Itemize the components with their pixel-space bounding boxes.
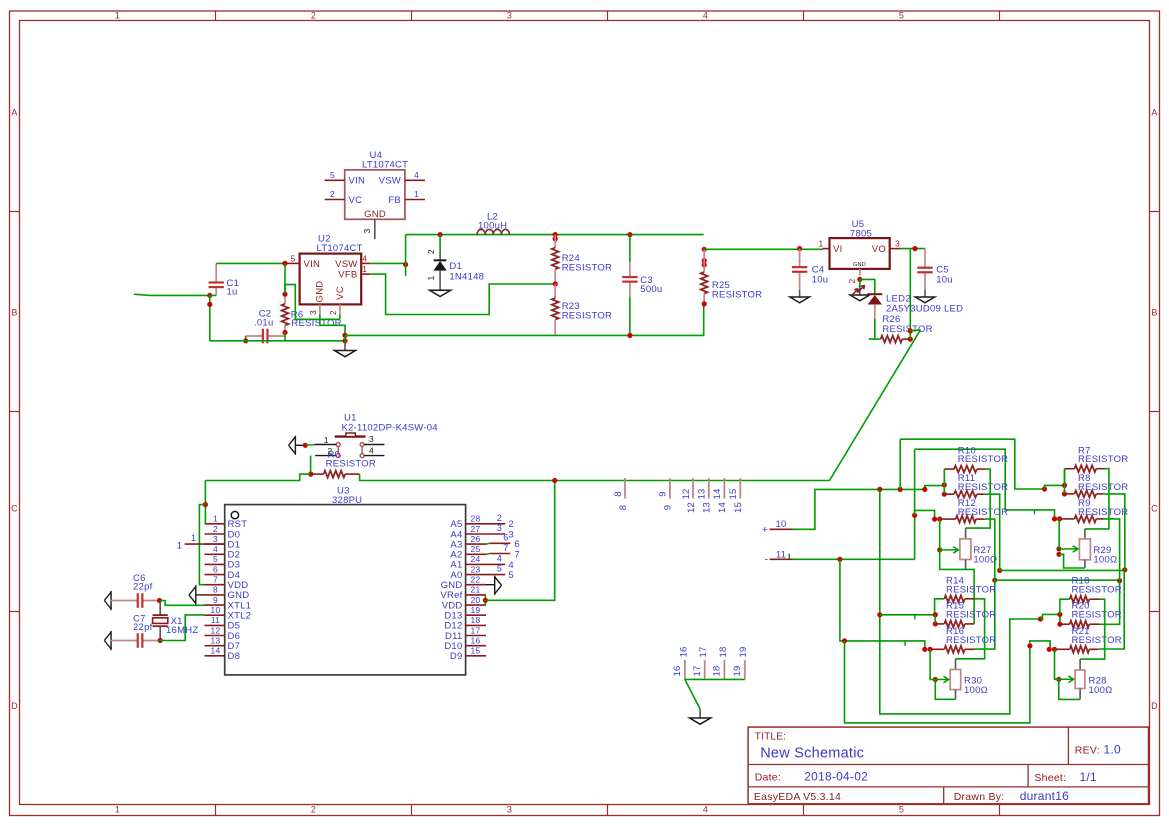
svg-text:EasyEDA V5.3.14: EasyEDA V5.3.14 — [754, 791, 841, 803]
wire D1 top — [439, 235, 441, 251]
svg-text:1N4148: 1N4148 — [449, 272, 484, 283]
svg-text:2: 2 — [328, 310, 338, 315]
wire R15 right col up — [966, 569, 975, 624]
capacitor C4 — [799, 249, 801, 268]
svg-text:8: 8 — [213, 585, 218, 595]
svg-text:durant16: durant16 — [1020, 789, 1069, 803]
capacitor C1 — [215, 263, 217, 282]
U3 right pin numbers — [471, 514, 481, 656]
svg-text:24: 24 — [471, 554, 481, 564]
svg-text:TITLE:: TITLE: — [755, 732, 787, 743]
wire C1 top to VIN node — [216, 262, 285, 264]
svg-text:K2-1102DP-K4SW-04: K2-1102DP-K4SW-04 — [342, 423, 438, 434]
junction R25 top b — [702, 262, 707, 267]
wire into C1 from left — [134, 294, 210, 295]
svg-text:12: 12 — [686, 502, 697, 513]
svg-text:28: 28 — [471, 514, 481, 524]
potentiometer R29 — [1079, 539, 1090, 560]
junction R20 feed corner — [1038, 616, 1043, 621]
ground symbol bottom — [690, 718, 711, 724]
wire rail A top — [900, 439, 1044, 489]
svg-text:A: A — [1151, 108, 1157, 118]
svg-text:13: 13 — [211, 635, 221, 645]
junction railA right — [1042, 486, 1047, 491]
wire R18 left col — [1060, 599, 1070, 614]
ground stem bottom — [699, 709, 701, 718]
U3 right pin names — [440, 519, 462, 662]
ground stem C5 — [924, 290, 926, 297]
wire bottom stub diagonal — [685, 679, 700, 709]
svg-text:2: 2 — [847, 278, 857, 283]
U5 pin 1 stub — [823, 248, 830, 250]
wire R7 right col to pot top — [1085, 469, 1109, 529]
wire R15 feed rail — [880, 614, 936, 616]
svg-text:1: 1 — [191, 533, 196, 543]
svg-text:GND: GND — [853, 262, 866, 268]
wire U5 VO to C5 — [901, 248, 926, 250]
LED2 diode — [867, 294, 882, 319]
junction R21 left b — [1052, 647, 1057, 652]
ground symbol below C4 — [790, 297, 809, 303]
junction U1 pin1 flag — [303, 443, 308, 448]
svg-text:REV:: REV: — [1075, 745, 1100, 757]
svg-text:RESISTOR: RESISTOR — [958, 482, 1008, 493]
U3 right net labels — [497, 513, 520, 581]
svg-text:RESISTOR: RESISTOR — [958, 507, 1008, 518]
resistor R24 — [552, 235, 559, 284]
junction R6 bottom — [282, 330, 287, 335]
wire U2 VSW to rail riser — [370, 262, 405, 264]
junction U5 VO node — [912, 246, 917, 251]
svg-text:2: 2 — [497, 513, 502, 523]
svg-text:1: 1 — [324, 435, 329, 445]
junction C6-X1 — [157, 598, 162, 603]
net flag at C6 left — [104, 591, 111, 610]
junction R10 feed jog — [922, 487, 927, 492]
svg-text:LT1074CT: LT1074CT — [362, 160, 408, 171]
svg-text:RESISTOR: RESISTOR — [1078, 454, 1128, 465]
svg-text:10u: 10u — [936, 275, 953, 286]
wire R12 feed step — [915, 510, 935, 519]
wire pin22 to flag — [486, 584, 495, 586]
svg-text:9: 9 — [663, 505, 674, 511]
svg-text:9: 9 — [213, 595, 218, 605]
svg-text:VIN: VIN — [304, 259, 321, 270]
svg-text:11: 11 — [211, 615, 220, 625]
junction R12 branch — [912, 513, 917, 518]
svg-text:2018-04-02: 2018-04-02 — [804, 770, 868, 784]
svg-text:Sheet:: Sheet: — [1034, 772, 1066, 784]
svg-text:7805: 7805 — [850, 229, 872, 240]
svg-text:26: 26 — [471, 534, 481, 544]
junction bus riser — [552, 478, 557, 483]
junction R15 left — [933, 621, 938, 626]
junction R20 feed a — [1057, 612, 1062, 617]
net stub 14 on bus — [723, 478, 725, 499]
pot R30 bottom lead — [955, 690, 957, 700]
svg-text:RESISTOR: RESISTOR — [1078, 482, 1128, 493]
junction C1 bottom — [207, 293, 212, 298]
junction -11 branch — [837, 557, 842, 562]
svg-text:3: 3 — [213, 534, 218, 544]
op U2 box — [300, 254, 362, 305]
svg-text:16: 16 — [678, 646, 689, 657]
resistor R21 — [1055, 646, 1099, 653]
wire R12 right col — [985, 519, 995, 580]
svg-text:3: 3 — [308, 310, 318, 315]
wire +10 col down — [880, 489, 1041, 714]
capacitor C2 — [246, 335, 263, 337]
wire rail 570 — [1000, 569, 1125, 571]
wire bottom rail — [345, 304, 704, 336]
wire C3 bottom — [629, 297, 631, 335]
svg-text:GND: GND — [364, 209, 386, 220]
svg-text:3: 3 — [895, 238, 900, 248]
pot R29 top lead — [1084, 529, 1086, 539]
svg-text:1: 1 — [414, 189, 419, 199]
svg-text:B: B — [11, 308, 17, 318]
junction VDD branch — [203, 502, 208, 507]
wire flag to pin8 — [196, 594, 205, 596]
wire R28 bottom loop — [1059, 679, 1080, 699]
svg-text:2: 2 — [426, 249, 436, 254]
svg-text:16: 16 — [471, 635, 481, 645]
U2 pin 4 stub — [361, 262, 370, 264]
net stub 18 bottom — [723, 660, 725, 679]
svg-text:2: 2 — [213, 524, 218, 534]
svg-text:VO: VO — [872, 244, 886, 255]
U4 pin 2 stub — [325, 199, 345, 201]
svg-text:15: 15 — [728, 488, 739, 499]
wire U5 pin2 to LED — [860, 279, 875, 294]
U1 pin 4 line — [364, 455, 384, 457]
R29 wiper arrow — [1059, 546, 1078, 553]
wire R8 right col — [1104, 494, 1125, 570]
R30 wiper arrow — [935, 676, 948, 683]
svg-text:100Ω: 100Ω — [1093, 555, 1117, 566]
junction C3 bottom — [627, 333, 632, 338]
regulator U5 box — [830, 238, 890, 269]
resistor R16 — [930, 646, 974, 653]
svg-text:13: 13 — [697, 488, 708, 499]
svg-text:500u: 500u — [640, 284, 662, 295]
wire ground node stem — [344, 335, 346, 342]
svg-text:VI: VI — [833, 244, 842, 255]
svg-text:C: C — [1151, 504, 1158, 514]
svg-text:4: 4 — [497, 553, 502, 563]
wire flag to U1 pin1 — [295, 444, 305, 446]
svg-text:-: - — [765, 554, 769, 566]
net stub 19 bottom — [744, 660, 746, 679]
svg-text:4: 4 — [703, 805, 708, 815]
U2 pin 3 stub — [319, 304, 321, 314]
net 10 wire — [770, 528, 793, 530]
U4 pin 1 stub — [405, 199, 425, 201]
wire VRef-VDD tie — [484, 595, 486, 605]
resistor R11 — [944, 491, 985, 498]
svg-text:4: 4 — [213, 544, 218, 554]
U3 pin1 indicator circle — [231, 511, 238, 518]
net tick R16 feed — [904, 641, 906, 646]
capacitor C5 — [924, 249, 926, 268]
wire junction to pin1 — [305, 444, 314, 446]
wire C2 left down — [245, 336, 247, 341]
svg-text:RESISTOR: RESISTOR — [946, 609, 996, 620]
ground symbol below C5 — [915, 297, 934, 303]
title block — [748, 727, 1148, 804]
wire R10R11 left col — [943, 469, 945, 494]
junction R10R11 col a — [942, 482, 947, 487]
wire net11 rail — [793, 558, 915, 560]
wire R15 left col — [934, 615, 936, 624]
junction C7-X1 — [158, 638, 163, 643]
resistor R9 — [1060, 516, 1104, 523]
wire VIN node down to R6 — [284, 263, 286, 294]
svg-text:1: 1 — [177, 541, 183, 552]
svg-text:VC: VC — [349, 195, 363, 206]
junction R15 feed right — [933, 612, 938, 617]
wire R14 right col to pot top — [956, 599, 985, 659]
wire LED2 to R26 — [875, 338, 881, 340]
wire R20 feed step — [1041, 614, 1060, 624]
wire bus down to U3 — [204, 481, 206, 524]
junction R9 left b — [1057, 516, 1062, 521]
R26 right lead — [902, 338, 910, 340]
svg-text:2: 2 — [330, 189, 335, 199]
inductor L2 — [477, 229, 509, 234]
capacitor C6 — [111, 600, 138, 602]
wire R9 to wiper col — [1058, 519, 1060, 549]
wire R10 right col to pot top — [966, 469, 991, 528]
U3 left pin numbers — [211, 514, 221, 656]
junction R8 left — [1062, 491, 1067, 496]
svg-text:12: 12 — [211, 625, 221, 635]
svg-text:RESISTOR: RESISTOR — [712, 290, 762, 301]
svg-text:VC: VC — [335, 286, 346, 300]
svg-text:5: 5 — [899, 805, 904, 815]
pot R28 top lead — [1079, 659, 1081, 670]
junction R28 wiper — [1056, 677, 1061, 682]
resistor R15 — [935, 621, 974, 628]
svg-text:21: 21 — [471, 585, 481, 595]
svg-text:3: 3 — [369, 434, 374, 444]
svg-text:5: 5 — [899, 11, 904, 21]
U4 pin 3 stub — [374, 219, 376, 239]
svg-text:17: 17 — [698, 646, 709, 657]
junction below C1 — [207, 302, 212, 307]
junction C2 left on rail — [243, 338, 248, 343]
U3 left pin stubs — [205, 524, 225, 656]
wire R27 bottom loop — [940, 550, 966, 570]
net stub 9 on bus — [669, 478, 671, 499]
wire C7 to XTL2 — [158, 615, 204, 641]
wire C1 ground rail — [210, 340, 345, 342]
svg-text:14: 14 — [717, 502, 728, 513]
wire R9 right col — [1104, 519, 1120, 581]
pot R30 top lead — [955, 659, 957, 670]
svg-text:17: 17 — [692, 665, 703, 676]
junction R12 left a — [932, 517, 937, 522]
svg-text:23: 23 — [471, 564, 481, 574]
U1 pin 1 line — [314, 444, 336, 446]
svg-text:RESISTOR: RESISTOR — [946, 584, 996, 595]
U3 left pin names — [228, 519, 252, 662]
junction R24 top b — [553, 236, 558, 241]
junction R24 top a — [553, 232, 558, 237]
junction R27 wiper — [937, 547, 942, 552]
mcu U3 box — [225, 505, 466, 675]
resistor R12 — [940, 516, 985, 523]
wire branch to VDD pin7 — [199, 505, 205, 585]
U2 pin 5 stub — [287, 262, 300, 264]
svg-text:VIN: VIN — [349, 176, 366, 187]
wire top rail — [406, 234, 704, 236]
svg-text:16MHZ: 16MHZ — [166, 625, 198, 636]
ground stem U5 pin2 — [859, 288, 861, 295]
wire +10 rail to network — [880, 486, 945, 490]
svg-text:3: 3 — [508, 529, 514, 540]
ground symbol below U5 pin2 — [850, 295, 869, 301]
resistor R0 — [311, 471, 360, 478]
pot R29 bottom lead — [1084, 560, 1086, 568]
net tick on R9 feed — [1034, 510, 1036, 515]
U3 right net wires — [486, 524, 510, 575]
svg-text:1: 1 — [213, 514, 218, 524]
U3 right pin stubs — [466, 524, 486, 656]
junction main ground node lower — [342, 338, 347, 343]
svg-text:GND: GND — [314, 281, 325, 303]
svg-text:18: 18 — [718, 646, 729, 657]
resistor R6 — [282, 294, 289, 332]
junction R7R8 feed — [1062, 483, 1067, 488]
wire R7R8 left col — [1064, 469, 1066, 494]
U1 pin 3 line — [364, 444, 384, 446]
junction C4 top — [797, 246, 802, 251]
svg-text:6: 6 — [503, 533, 508, 543]
wire rail 580 — [995, 579, 1120, 581]
svg-text:25: 25 — [471, 544, 481, 554]
svg-text:RESISTOR: RESISTOR — [946, 635, 996, 646]
wire R7 left col — [1064, 469, 1066, 486]
resistor R10 — [944, 466, 985, 473]
junction R26 right — [908, 337, 913, 342]
wire R12 to wiper col — [939, 519, 941, 550]
svg-text:1: 1 — [426, 275, 436, 280]
svg-text:100Ω: 100Ω — [1089, 685, 1113, 696]
svg-text:RESISTOR: RESISTOR — [958, 454, 1008, 465]
svg-text:328PU: 328PU — [332, 495, 362, 506]
junction R21 left a — [1047, 647, 1052, 652]
svg-text:7: 7 — [514, 549, 520, 560]
U1 pin 2 line — [315, 455, 336, 457]
svg-text:18: 18 — [471, 615, 481, 625]
svg-text:3: 3 — [507, 11, 512, 21]
junction U5 pin2 node — [857, 277, 862, 282]
svg-text:RESISTOR: RESISTOR — [1072, 609, 1122, 620]
junction VSW node — [403, 262, 408, 267]
svg-text:12: 12 — [681, 488, 692, 499]
potentiometer R28 — [1075, 670, 1085, 689]
svg-text:RESISTOR: RESISTOR — [562, 263, 612, 274]
net flag at U3 pin22 GND — [495, 576, 502, 595]
wire C1 bottom jog — [210, 295, 216, 340]
svg-text:4: 4 — [362, 253, 367, 263]
svg-text:RESISTOR: RESISTOR — [562, 311, 612, 322]
svg-text:New Schematic: New Schematic — [760, 746, 864, 762]
wire col1124 to R21 right — [1098, 570, 1124, 649]
U2 pin 1 stub — [361, 273, 370, 275]
svg-text:2: 2 — [311, 805, 316, 815]
svg-text:1u: 1u — [227, 287, 238, 298]
resistor R25 — [701, 249, 708, 304]
wire R16 to wiper col — [930, 649, 935, 679]
svg-text:1: 1 — [362, 264, 367, 274]
svg-text:9: 9 — [658, 491, 669, 497]
svg-text:100uH: 100uH — [478, 221, 507, 232]
svg-text:Drawn By:: Drawn By: — [954, 791, 1005, 803]
wire bottom stub bus — [685, 678, 745, 680]
svg-text:14: 14 — [211, 646, 221, 656]
svg-text:7: 7 — [503, 543, 508, 553]
wire R21 to wiper col — [1055, 649, 1059, 679]
U5 pin 2 stub — [859, 269, 861, 276]
svg-text:3: 3 — [362, 228, 372, 233]
wire -11 col down — [840, 559, 925, 649]
svg-text:RESISTOR: RESISTOR — [1072, 635, 1122, 646]
svg-text:RESISTOR: RESISTOR — [882, 324, 932, 335]
net flag at U1 pin1 — [289, 436, 296, 455]
resistor R18 — [1070, 596, 1100, 603]
svg-text:100Ω: 100Ω — [973, 555, 997, 566]
wire diagonal to MCU bus — [830, 330, 921, 481]
svg-text:.01u: .01u — [254, 318, 274, 329]
svg-text:D1: D1 — [449, 261, 462, 272]
resistor R7 — [1065, 465, 1105, 472]
wire R25 to U5 VI — [704, 248, 823, 250]
wire U1 pin2 down — [310, 456, 312, 475]
capacitor C3 — [629, 262, 631, 277]
svg-text:10: 10 — [211, 605, 221, 615]
potentiometer R27 — [960, 539, 971, 560]
wire VO down to R26 node — [909, 249, 911, 340]
wire R30 bottom loop — [935, 680, 955, 700]
svg-text:5: 5 — [497, 564, 502, 574]
wire C3 top — [629, 235, 631, 263]
svg-text:19: 19 — [738, 646, 749, 657]
svg-text:D: D — [11, 701, 18, 711]
wire R29 bottom loop — [1059, 554, 1085, 568]
svg-text:C: C — [11, 504, 18, 514]
wire net10 to rail — [793, 489, 880, 529]
wire R18 right col to pot top — [1080, 599, 1105, 659]
svg-text:3: 3 — [507, 805, 512, 815]
wire LED2 anode down — [869, 319, 875, 339]
junction main ground node upper — [342, 333, 347, 338]
svg-text:VFB: VFB — [338, 269, 357, 280]
wire U2 pin3 riser — [320, 314, 345, 335]
svg-text:3: 3 — [497, 523, 502, 533]
resistor R20 — [1060, 621, 1100, 628]
svg-text:22pf: 22pf — [133, 622, 153, 633]
ground stem C4 — [799, 290, 801, 297]
svg-text:100Ω: 100Ω — [964, 685, 988, 696]
svg-text:15: 15 — [733, 502, 744, 513]
wire rail B top — [915, 449, 1055, 519]
svg-text:20: 20 — [471, 595, 481, 605]
net flag at C7 left — [104, 631, 111, 650]
wire R10 left col — [943, 469, 945, 486]
svg-text:LT1074CT: LT1074CT — [317, 243, 363, 254]
